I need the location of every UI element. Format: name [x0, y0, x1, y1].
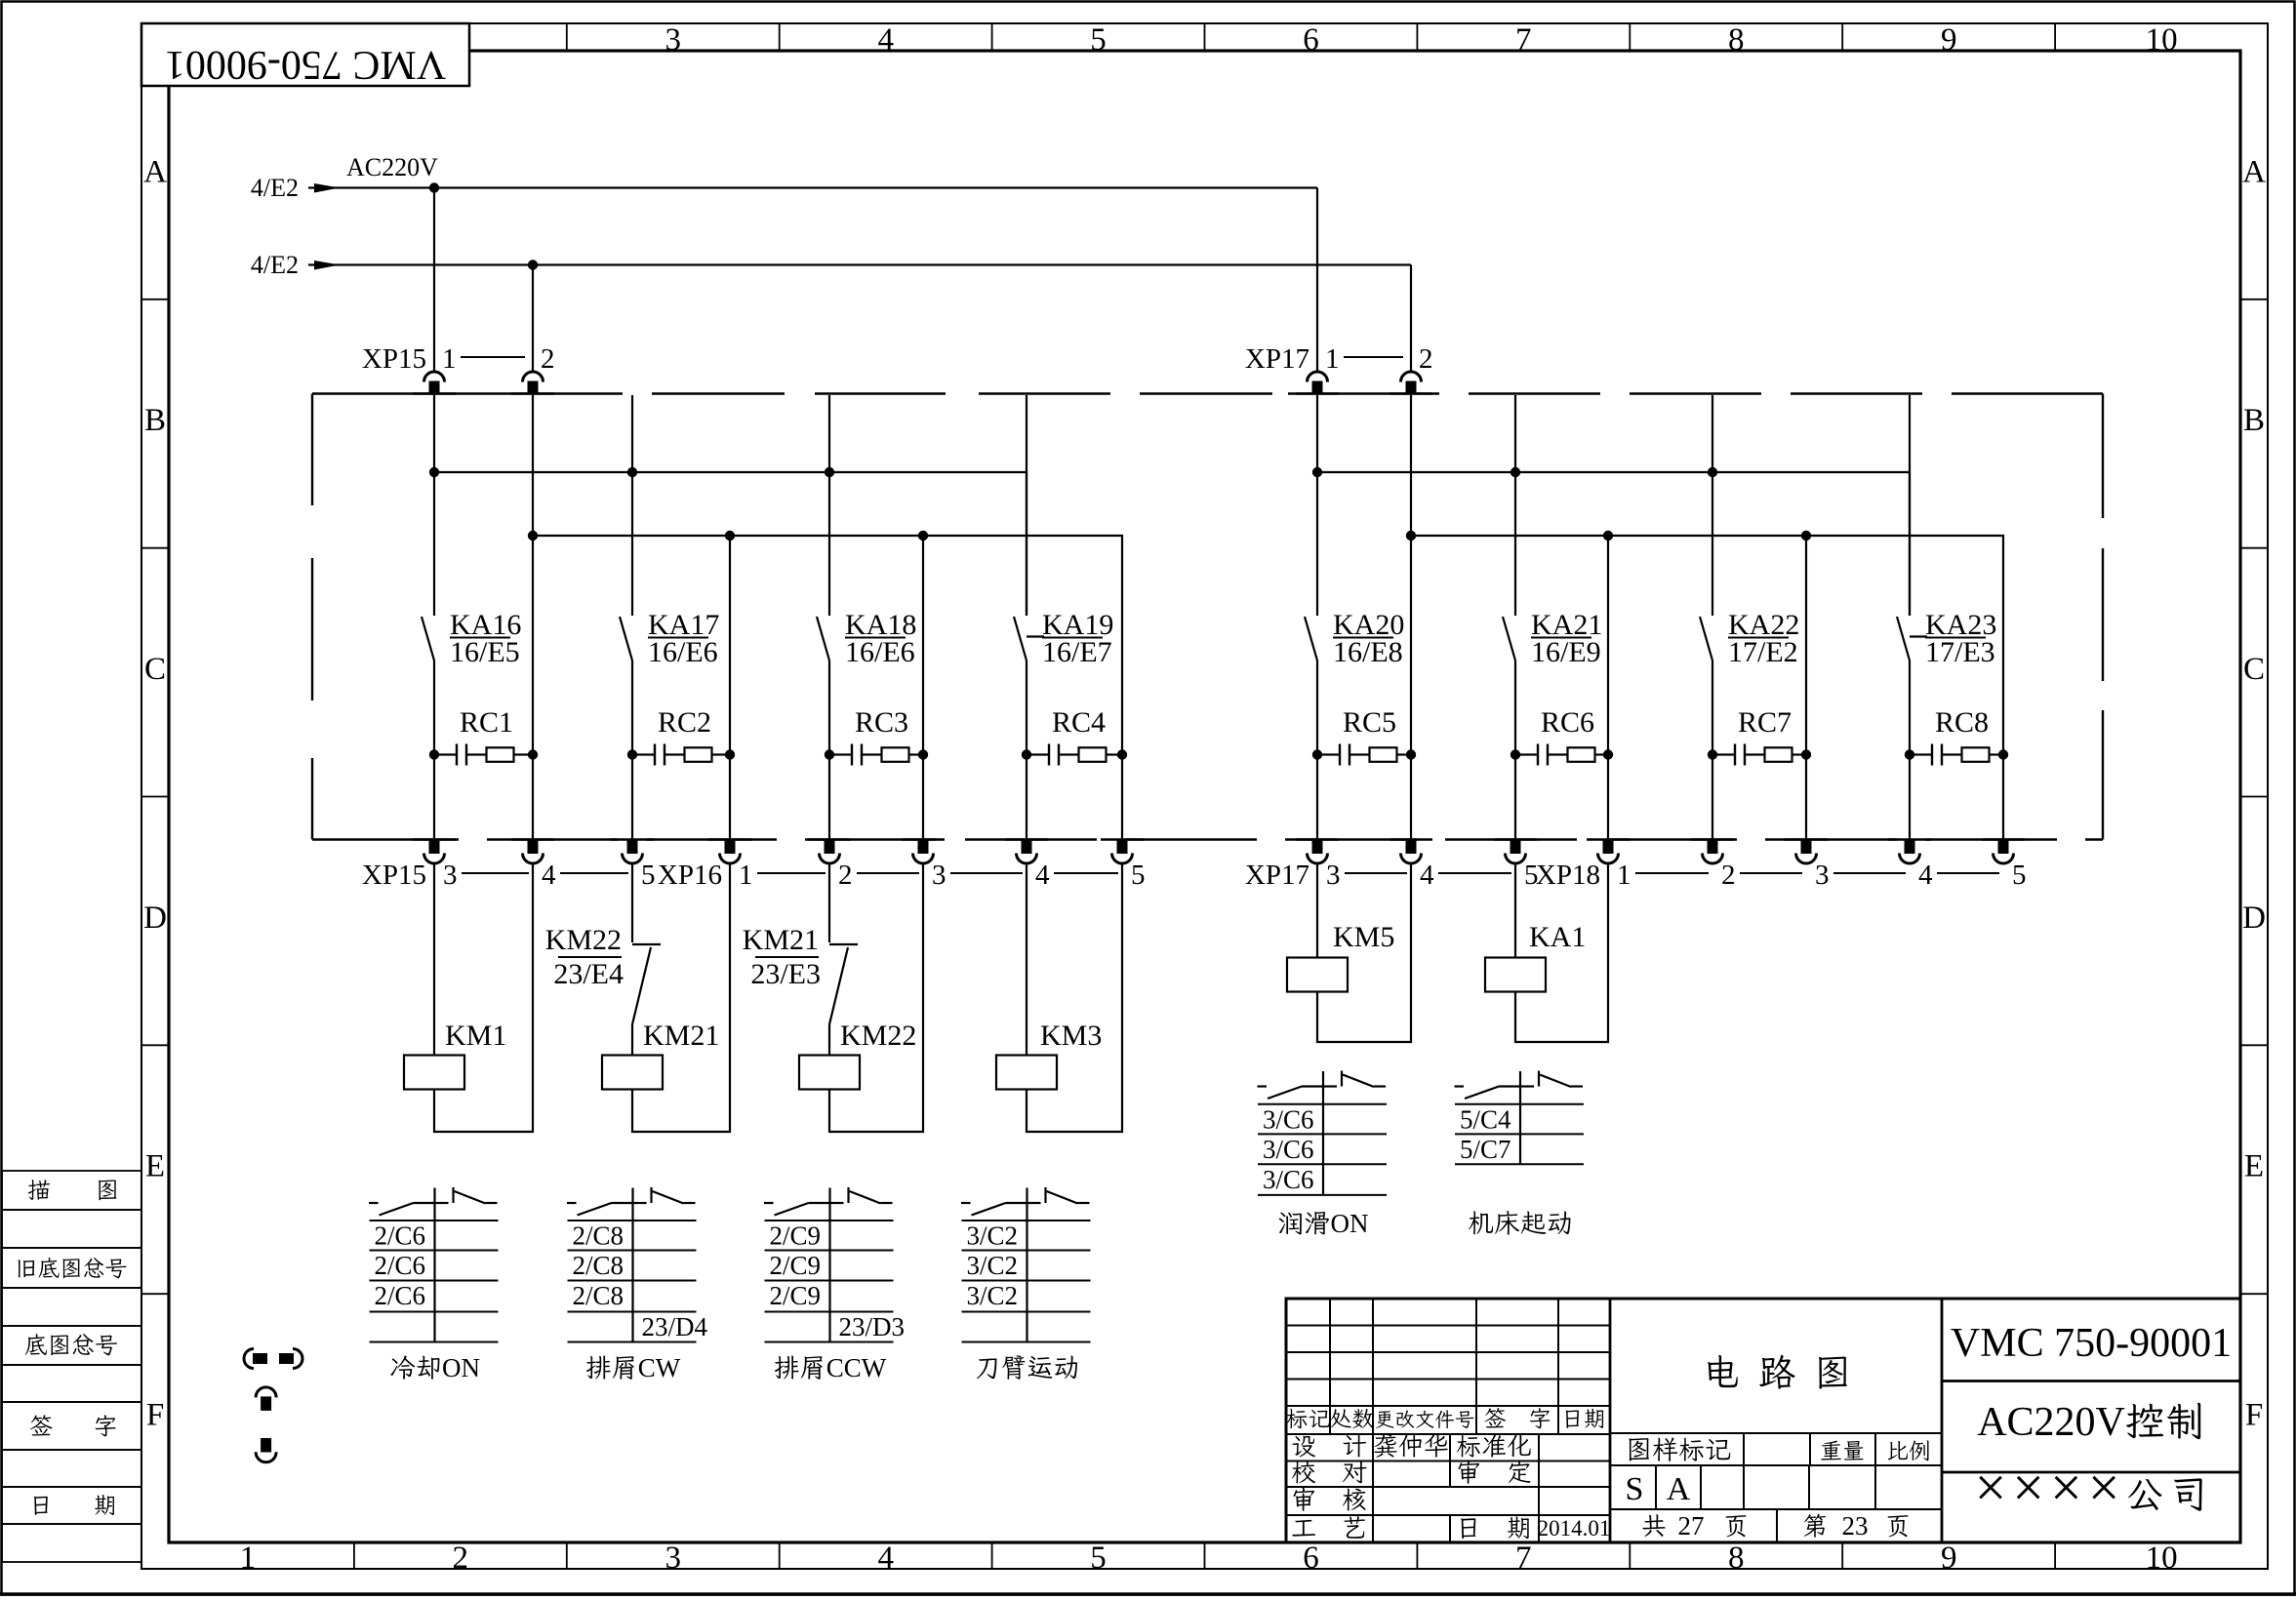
coil KM3: [996, 1056, 1057, 1090]
RC suppressor RC8: resistor body: [1942, 753, 1962, 755]
svg-text:KM5: KM5: [1333, 921, 1394, 953]
svg-text:A: A: [143, 154, 167, 189]
junction dot feed2/XP15-2: [528, 260, 538, 269]
relay contact KA23 (NO): [1897, 617, 1910, 660]
svg-text:E: E: [2244, 1149, 2264, 1184]
svg-text:KM3: KM3: [1040, 1020, 1102, 1052]
function caption 排屑CW for KM21: [586, 1356, 611, 1380]
svg-text:RC8: RC8: [1935, 706, 1989, 739]
connector XP15-2 (socket+plug on cabinet top wall): [511, 392, 554, 394]
svg-text:B: B: [144, 403, 166, 438]
underline for KA23: [1925, 637, 1986, 639]
svg-text:F: F: [2245, 1398, 2263, 1433]
wire: RC right-side riser at x=546: [532, 536, 534, 755]
S A row: [1610, 1508, 1942, 1510]
junction dot RC6 right: [1603, 749, 1613, 759]
table row lines KM22: [765, 1220, 894, 1221]
svg-text:16/E6: 16/E6: [648, 636, 718, 668]
svg-text:4: 4: [1035, 860, 1050, 891]
svg-text:6: 6: [1303, 1541, 1319, 1576]
wire drop to bottom connector at x=1446: [1410, 755, 1412, 841]
svg-text:5: 5: [1090, 22, 1107, 58]
svg-text:4: 4: [1918, 860, 1933, 891]
svg-text:3: 3: [665, 1541, 682, 1576]
connector XP17-2 (socket+plug on cabinet top wall): [1390, 392, 1432, 394]
svg-text:RC3: RC3: [855, 706, 908, 739]
junction dot RC6 left: [1511, 749, 1520, 759]
svg-text:RC6: RC6: [1541, 706, 1594, 739]
connector XP15/16 bottom 4 (plug+socket on cabinet bottom wall): [808, 838, 851, 840]
RC suppressor RC3: resistor body: [862, 753, 882, 755]
svg-text:RC7: RC7: [1738, 706, 1792, 739]
svg-text:B: B: [2243, 403, 2265, 438]
connector XP17/18 bottom 4 (plug+socket on cabinet bottom wall): [1691, 838, 1734, 840]
wire drop to bottom connector at x=1052: [1026, 755, 1027, 841]
connector XP17/18 bottom 5 (plug+socket on cabinet bottom wall): [1785, 838, 1828, 840]
svg-text:O: O: [1331, 1209, 1350, 1238]
wire: corner down from feed wire 1 to XP17 pin 1: [1316, 188, 1318, 373]
wire: XP15-2 riser between dash line and feed row 2: [532, 395, 534, 536]
svg-text:17/E2: 17/E2: [1728, 636, 1798, 668]
wire drop to bottom connector at x=2053: [2002, 755, 2004, 841]
svg-text:KM21: KM21: [743, 924, 819, 956]
right column: document number: [1942, 1380, 2240, 1382]
branch 5: KM5 coil circuit: [1316, 863, 1318, 958]
relay contact KA16 (NO): [422, 617, 434, 660]
connector XP17/18 bottom 7 (plug+socket on cabinet bottom wall): [1982, 838, 2025, 840]
underline for KM22: [558, 956, 622, 958]
wire: corner down from feed wire 2 to XP17 pin 2: [1410, 265, 1412, 373]
svg-text:3: 3: [932, 860, 947, 891]
svg-text:RC2: RC2: [658, 706, 711, 739]
junction dots feed row1 left: [429, 467, 439, 477]
svg-text:23/D3: 23/D3: [839, 1312, 906, 1341]
NC contact KM21: [829, 943, 858, 945]
underline for KM21: [755, 956, 819, 958]
wire: XP15 pin2 drop from feed wire 2: [532, 265, 534, 373]
svg-text:1: 1: [739, 860, 753, 891]
svg-text:2: 2: [453, 1541, 469, 1576]
legend: connector plug over socket (vertical, lower half): [261, 1438, 271, 1453]
wire drop to bottom connector at x=1350: [1316, 755, 1318, 841]
connector XP15/16 bottom 0 (plug+socket on cabinet bottom wall): [413, 838, 456, 840]
svg-text:3/C2: 3/C2: [967, 1221, 1019, 1251]
svg-text:3: 3: [1326, 860, 1341, 891]
arrow head on feed wire 2: [314, 260, 340, 270]
connector XP15/16 bottom 3 (plug+socket on cabinet bottom wall): [708, 838, 751, 840]
table row lines KM1: [370, 1220, 499, 1221]
NC contact symbol (aux contacts of KM21): [633, 1202, 647, 1204]
underline for KA20: [1333, 637, 1393, 639]
title block main vertical separators: [1609, 1299, 1612, 1542]
connector XP15/16 bottom 5 (plug+socket on cabinet bottom wall): [902, 838, 945, 840]
wire: KA21 branch upper segment: [1514, 395, 1516, 616]
junction dot RC5 right: [1406, 749, 1416, 759]
svg-text:A: A: [2242, 154, 2266, 189]
branch 6: KA1 coil circuit: [1514, 863, 1516, 958]
svg-text:2/C9: 2/C9: [770, 1281, 822, 1310]
svg-text:9: 9: [1941, 22, 1957, 58]
wire: KA20 branch upper segment: [1316, 395, 1318, 616]
svg-text:4/E2: 4/E2: [251, 174, 299, 202]
svg-text:5: 5: [2012, 860, 2027, 891]
signature rows labels: [1292, 1436, 1315, 1458]
wire: RC right-side riser at x=1648: [1607, 536, 1609, 755]
pin link lines XP15 bottom: [462, 872, 529, 874]
wire: RC right-side riser at x=946: [922, 536, 924, 755]
connector XP15/16 bottom 6 (plug+socket on cabinet bottom wall): [1005, 838, 1048, 840]
svg-text:17/E3: 17/E3: [1925, 636, 1995, 668]
svg-text:A: A: [1977, 1400, 2007, 1445]
svg-text:XP15: XP15: [362, 343, 426, 375]
svg-text:23/E4: 23/E4: [553, 958, 624, 990]
svg-text:XP15: XP15: [362, 860, 426, 891]
coil KM22: [799, 1056, 860, 1090]
legend: mated connector pair (horizontal): [244, 1349, 254, 1369]
wire: KA22 branch upper segment: [1712, 395, 1713, 616]
svg-text:10: 10: [2146, 1541, 2178, 1576]
wire: KA17 branch upper segment: [631, 395, 633, 616]
wire: RC right-side riser at x=748: [729, 536, 731, 755]
svg-text:5/C4: 5/C4: [1460, 1104, 1511, 1134]
svg-text:5: 5: [641, 860, 656, 891]
underline for KA18: [845, 637, 906, 639]
underline for KA21: [1531, 637, 1591, 639]
svg-text:C: C: [2243, 652, 2265, 687]
wire: XP15 pin1 drop from feed wire 1: [433, 188, 435, 373]
svg-text:1: 1: [240, 1541, 257, 1576]
svg-text:2: 2: [2034, 1400, 2055, 1445]
connector XP15/16 bottom 7 (plug+socket on cabinet bottom wall): [1101, 838, 1144, 840]
svg-text:×: ×: [2012, 1456, 2044, 1519]
NC contact symbol (aux contacts of KM3): [1027, 1202, 1041, 1204]
svg-text:XP17: XP17: [1245, 343, 1309, 375]
link line pin1-pin2 XP15: [461, 356, 525, 358]
underline for KA19: [1042, 637, 1103, 639]
coil KM21: [602, 1056, 663, 1090]
table center line KM21: [631, 1188, 633, 1342]
junction dot RC8 left: [1905, 749, 1914, 759]
RC suppressor RC7: capacitor plates: [1712, 753, 1735, 755]
svg-text:A: A: [1667, 1471, 1691, 1507]
NC contact symbol (aux contacts of KM22): [830, 1202, 844, 1204]
图样标记 row: [1610, 1432, 1942, 1434]
wire drop to bottom connector at x=1957: [1909, 755, 1911, 841]
svg-text:16/E6: 16/E6: [845, 636, 915, 668]
svg-text:XP16: XP16: [658, 860, 722, 891]
svg-text:16/E8: 16/E8: [1333, 636, 1403, 668]
RC suppressor RC8: capacitor plates: [1910, 753, 1932, 755]
wire drop to bottom connector at x=648: [631, 755, 633, 841]
svg-text:23/D4: 23/D4: [642, 1312, 708, 1341]
NC contact KM22: [632, 943, 661, 945]
svg-text:C: C: [638, 1353, 656, 1382]
svg-text:2: 2: [838, 860, 853, 891]
legend: connector socket over plug (vertical, upper half): [256, 1387, 276, 1398]
svg-text:5: 5: [1131, 860, 1146, 891]
underline for KA17: [648, 637, 708, 639]
junction dots feed row1 right: [1312, 467, 1322, 477]
stray dash near KA23: [1910, 635, 1927, 637]
wire: KA1 return loop: [1515, 863, 1608, 1042]
junction dot RC3 left: [825, 749, 834, 759]
wire: KM3 return loop: [1027, 863, 1122, 1132]
junction dot RC7 right: [1801, 749, 1811, 759]
junction dot RC1 left: [429, 749, 439, 759]
svg-text:4: 4: [542, 860, 556, 891]
RC suppressor RC3: capacitor plates: [829, 753, 852, 755]
wire: KA23 branch upper segment: [1909, 395, 1911, 616]
svg-text:N: N: [462, 1353, 481, 1382]
title block left table lines: [1286, 1325, 1610, 1327]
table row lines KM3: [962, 1220, 1091, 1221]
junction dot RC2 left: [627, 749, 637, 759]
connector XP17-1 (socket+plug on cabinet top wall): [1296, 392, 1339, 394]
cabinet boundary dashed line (right): [2102, 394, 2104, 519]
wire: KM5 return loop: [1317, 863, 1411, 1042]
svg-text:2/C6: 2/C6: [375, 1221, 426, 1251]
RC suppressor RC1: resistor body: [466, 753, 487, 755]
left margin info boxes (描图/旧底图总号/底图总号/签字/日期): [2, 1171, 141, 1210]
NO contact symbol (aux contacts of KM21): [567, 1202, 577, 1204]
connector XP15/16 bottom 1 (plug+socket on cabinet bottom wall): [511, 838, 554, 840]
svg-text:XP17: XP17: [1245, 860, 1309, 891]
svg-text:0: 0: [2075, 1400, 2096, 1445]
svg-text:RC5: RC5: [1343, 706, 1396, 739]
connector XP15-1 (socket+plug on cabinet top wall): [413, 392, 456, 394]
NC contact symbol (aux contacts of KA1): [1520, 1085, 1534, 1087]
wire drop to bottom connector at x=946: [922, 755, 924, 841]
function caption 排屑CCW for KM22: [775, 1356, 799, 1380]
underline for KA16: [450, 637, 510, 639]
page count row 共27页 第23页: [1776, 1509, 1778, 1542]
wire: KM22 return loop: [829, 863, 923, 1132]
wire: XP17-2 riser between dash line and feed row 2: [1410, 395, 1412, 536]
wire: KM1 return loop: [434, 863, 533, 1132]
svg-text:KM22: KM22: [545, 924, 622, 956]
svg-text:2/C6: 2/C6: [375, 1251, 426, 1280]
connector XP15/16 bottom 2 (plug+socket on cabinet bottom wall): [611, 838, 654, 840]
wire: KA19 branch to RC row: [1026, 660, 1027, 755]
wire drop to bottom connector at x=546: [532, 755, 534, 841]
wire: from connector down to NC contact KM22: [631, 863, 633, 942]
RC suppressor RC7: resistor body: [1745, 753, 1765, 755]
table row lines KM21: [568, 1220, 697, 1221]
NO contact symbol (aux contacts of KM3): [961, 1202, 971, 1204]
svg-text:KM21: KM21: [643, 1020, 719, 1052]
svg-text:D: D: [143, 901, 167, 936]
wire: KA20 branch to RC row: [1316, 660, 1318, 755]
RC suppressor RC4: capacitor plates: [1027, 753, 1049, 755]
svg-text:RC1: RC1: [460, 706, 513, 739]
svg-text:D: D: [2242, 901, 2266, 936]
stray dash near KA19: [1027, 635, 1044, 637]
wire: KA18 branch to RC row: [828, 660, 830, 755]
svg-text:C: C: [144, 652, 166, 687]
svg-text:3/C2: 3/C2: [967, 1281, 1019, 1310]
svg-text:1: 1: [1325, 343, 1340, 375]
svg-text:AC220V: AC220V: [346, 153, 438, 181]
relay contact KA18 (NO): [817, 617, 829, 660]
wire: KA18 branch upper segment: [828, 395, 830, 616]
relay contact KA20 (NO): [1305, 617, 1317, 660]
svg-text:3: 3: [665, 22, 682, 58]
RC suppressor RC4: resistor body: [1059, 753, 1079, 755]
coil KM1: [404, 1056, 464, 1090]
AC220V feed wire 2 (second horizontal): [308, 263, 1411, 265]
NO contact symbol (aux contacts of KA1): [1455, 1085, 1465, 1087]
svg-text:10: 10: [2146, 22, 2178, 58]
svg-text:3/C2: 3/C2: [967, 1251, 1019, 1280]
junction dot RC4 right: [1117, 749, 1127, 759]
wire: KA21 branch to RC row: [1514, 660, 1516, 755]
junction dot RC5 left: [1312, 749, 1322, 759]
svg-text:XP18: XP18: [1536, 860, 1600, 891]
svg-text:6: 6: [1303, 22, 1319, 58]
NC contact symbol (aux contacts of KM5): [1323, 1085, 1337, 1087]
wire: KA17 branch to RC row: [631, 660, 633, 755]
svg-text:4: 4: [1420, 860, 1434, 891]
relay contact KA21 (NO): [1503, 617, 1515, 660]
arrow head on feed wire 1: [314, 183, 340, 193]
RC suppressor RC6: resistor body: [1548, 753, 1568, 755]
connector XP17/18 bottom 3 (plug+socket on cabinet bottom wall): [1587, 838, 1630, 840]
svg-text:W: W: [656, 1353, 681, 1382]
table center line KA1: [1519, 1071, 1521, 1164]
wire: RC right-side riser at x=1446: [1410, 536, 1412, 755]
wire: from connector down to NC contact KM21: [828, 863, 830, 942]
svg-text:×: ×: [1975, 1456, 2007, 1519]
function caption 冷却ON for KM1: [390, 1355, 415, 1379]
junction dots feed row2 left: [528, 531, 538, 540]
function caption 润滑ON for KM5: [1279, 1212, 1302, 1234]
wire: KA19 branch upper segment: [1026, 395, 1027, 616]
column tick marks on top and bottom grid bands: [353, 23, 355, 51]
coil KA1: [1485, 958, 1546, 992]
RC suppressor RC5: resistor body: [1349, 753, 1370, 755]
title block outer border: [1286, 1299, 2240, 1542]
svg-text:2/C8: 2/C8: [573, 1221, 624, 1251]
NC contact symbol (aux contacts of KM1): [435, 1202, 449, 1204]
wire drop to bottom connector at x=1648: [1607, 755, 1609, 841]
svg-text:2: 2: [1419, 343, 1433, 375]
junction dot RC2 right: [725, 749, 735, 759]
svg-text:2: 2: [541, 343, 555, 375]
RC suppressor RC5: capacitor plates: [1317, 753, 1340, 755]
svg-text:8: 8: [1728, 1541, 1745, 1576]
svg-text:N: N: [1349, 1209, 1369, 1238]
junction dot RC1 right: [528, 749, 538, 759]
svg-text:16/E5: 16/E5: [450, 636, 520, 668]
svg-text:F: F: [146, 1398, 164, 1433]
svg-text:VMC 750-90001: VMC 750-90001: [165, 42, 446, 87]
svg-text:2/C8: 2/C8: [573, 1281, 624, 1310]
wire: RC right-side riser at x=1851: [1805, 536, 1807, 755]
row tick marks on left and right grid bands: [141, 299, 169, 300]
svg-text:C: C: [2007, 1400, 2034, 1445]
svg-text:O: O: [442, 1353, 462, 1382]
svg-text:2/C9: 2/C9: [770, 1221, 822, 1251]
svg-text:23/E3: 23/E3: [750, 958, 821, 990]
table center line KM1: [433, 1188, 435, 1342]
wire drop to bottom connector at x=445: [433, 755, 435, 841]
svg-text:×: ×: [2088, 1456, 2120, 1519]
junction dots feed row2 right: [1406, 531, 1416, 540]
wire drop to bottom connector at x=850: [828, 755, 830, 841]
table row lines KA1: [1455, 1103, 1584, 1105]
svg-text:2/C9: 2/C9: [770, 1251, 822, 1280]
wire: KA22 branch to RC row: [1712, 660, 1713, 755]
svg-text:W: W: [862, 1353, 887, 1382]
junction dot RC3 right: [918, 749, 928, 759]
link line pin1-pin2 XP17: [1344, 356, 1403, 358]
connector XP17/18 bottom 6 (plug+socket on cabinet bottom wall): [1888, 838, 1931, 840]
AC220V feed wire 1 (top horizontal): [308, 186, 1317, 188]
relay contact KA19 (NO): [1014, 617, 1027, 660]
svg-text:2: 2: [2055, 1400, 2075, 1445]
svg-text:1: 1: [442, 343, 457, 375]
branch 1: KM1 coil circuit: [433, 863, 435, 1056]
svg-text:2: 2: [1721, 860, 1736, 891]
junction dot feed1/XP15-1: [429, 182, 439, 192]
svg-text:27: 27: [1678, 1511, 1705, 1541]
relay contact KA17 (NO): [620, 617, 632, 660]
wire drop to bottom connector at x=1851: [1805, 755, 1807, 841]
NO contact symbol (aux contacts of KM22): [764, 1202, 774, 1204]
svg-text:5/C7: 5/C7: [1460, 1135, 1511, 1164]
feed bus row 2 (right half): [1411, 536, 2003, 755]
wire drop to bottom connector at x=1150: [1121, 755, 1123, 841]
RC suppressor RC2: resistor body: [665, 753, 685, 755]
underline for KA22: [1728, 637, 1789, 639]
svg-text:V: V: [2096, 1400, 2125, 1445]
junction dot RC7 left: [1708, 749, 1717, 759]
feed bus row 1 (right half): [1317, 472, 1910, 616]
wire drop to bottom connector at x=1553: [1514, 755, 1516, 841]
svg-text:3/C6: 3/C6: [1263, 1104, 1314, 1134]
svg-text:23: 23: [1842, 1511, 1869, 1541]
NO contact symbol (aux contacts of KM5): [1258, 1085, 1268, 1087]
wire drop to bottom connector at x=1755: [1712, 755, 1713, 841]
wire: KA23 branch to RC row: [1909, 660, 1911, 755]
svg-text:16/E9: 16/E9: [1531, 636, 1601, 668]
svg-text:3: 3: [1815, 860, 1830, 891]
relay contact KA22 (NO): [1700, 617, 1712, 660]
svg-text:16/E7: 16/E7: [1042, 636, 1112, 668]
svg-text:RC4: RC4: [1052, 706, 1106, 739]
connector XP17/18 bottom 1 (plug+socket on cabinet bottom wall): [1390, 838, 1432, 840]
table row lines KM5: [1258, 1103, 1387, 1105]
wire drop to bottom connector at x=748: [729, 755, 731, 841]
svg-text:4: 4: [877, 22, 894, 58]
cabinet boundary dashed line (left): [311, 394, 313, 506]
svg-text:8: 8: [1728, 22, 1745, 58]
svg-text:2/C6: 2/C6: [375, 1281, 426, 1310]
svg-text:KM22: KM22: [840, 1020, 916, 1052]
svg-text:7: 7: [1515, 1541, 1532, 1576]
svg-text:2/C8: 2/C8: [573, 1251, 624, 1280]
svg-text:2014.01: 2014.01: [1538, 1516, 1611, 1541]
svg-text:3/C6: 3/C6: [1263, 1135, 1314, 1164]
svg-text:1: 1: [1617, 860, 1631, 891]
svg-text:KM1: KM1: [445, 1020, 506, 1052]
svg-text:C: C: [826, 1353, 844, 1382]
cabinet boundary dashed line (top): [312, 392, 623, 394]
svg-text:5: 5: [1090, 1541, 1107, 1576]
junction dot RC4 left: [1022, 749, 1031, 759]
wire: KA16 branch upper segment: [433, 395, 435, 616]
RC suppressor RC6: capacitor plates: [1515, 753, 1538, 755]
